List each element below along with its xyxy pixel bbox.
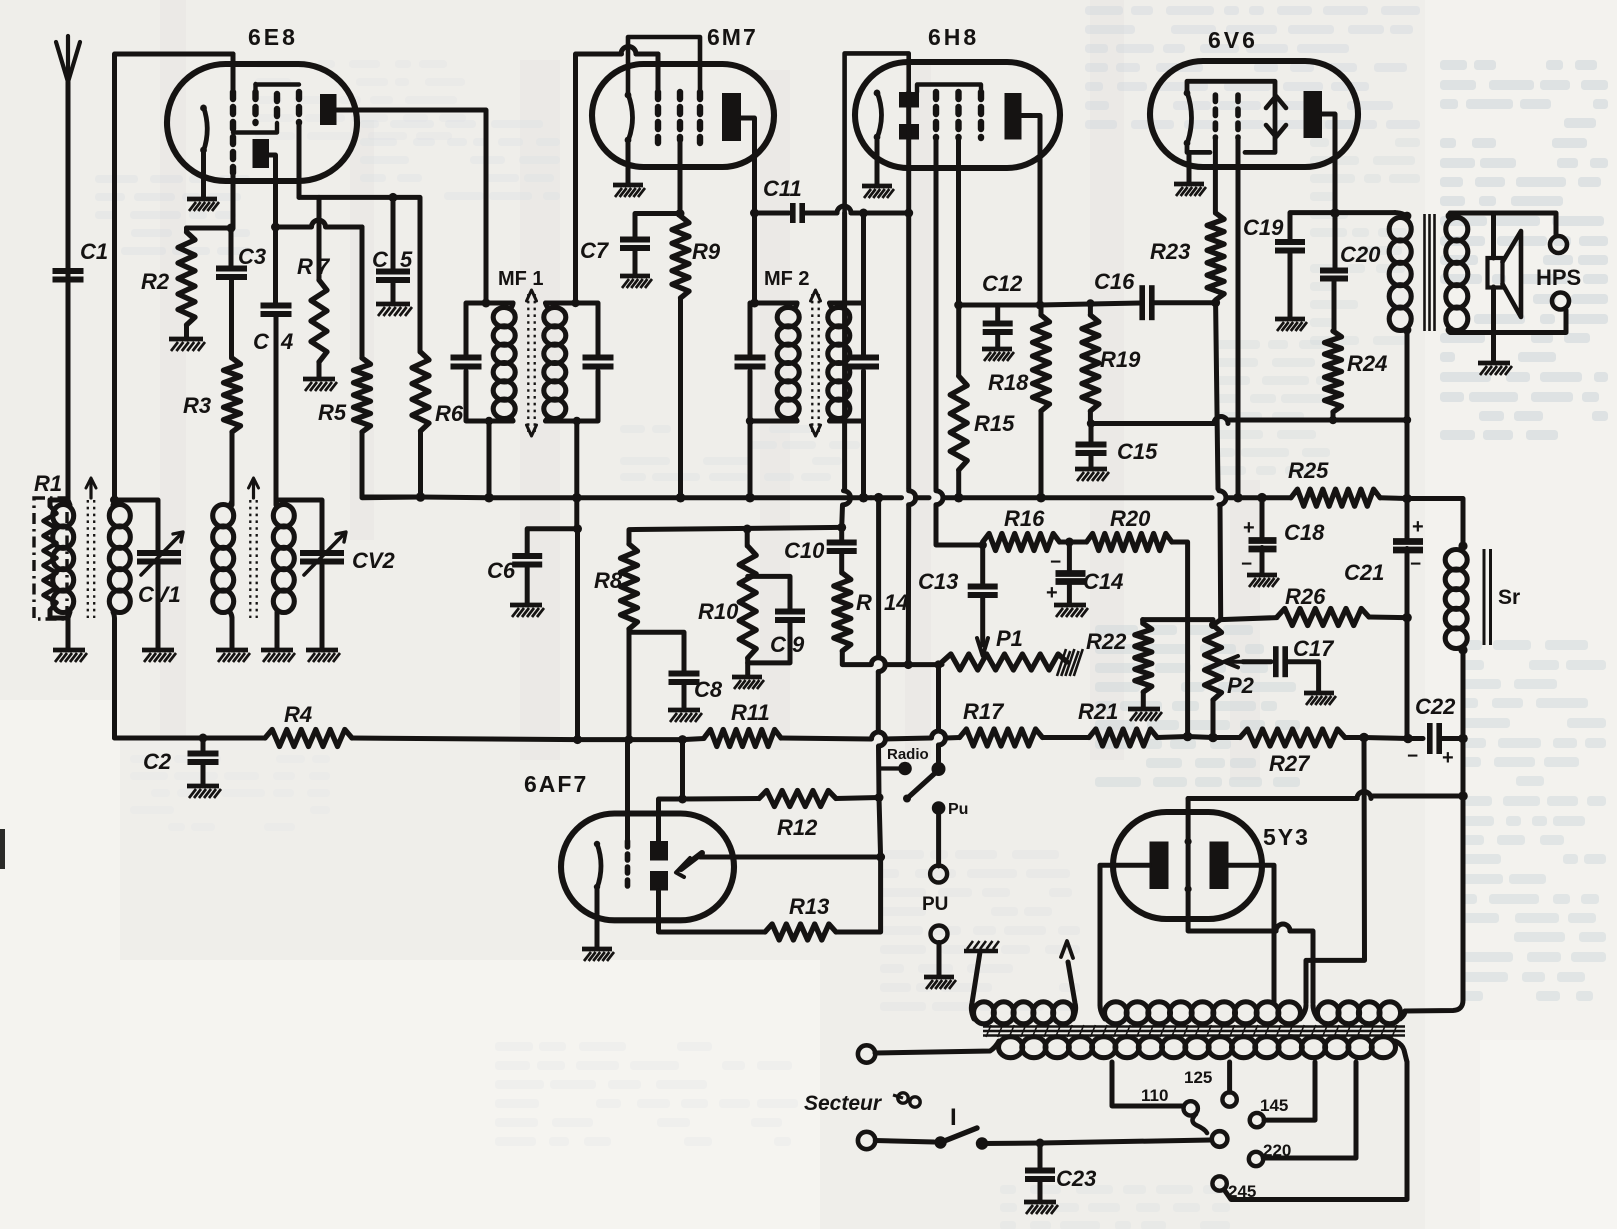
- ground C18: [1247, 573, 1277, 578]
- wire C16 to R23 node: [1152, 300, 1216, 305]
- wire C4-node to R5 with hop: [276, 225, 312, 230]
- svg-text:R10: R10: [698, 599, 739, 624]
- HPS terminal top: [1550, 236, 1567, 253]
- ground R2: [169, 337, 203, 342]
- wire R15 to bus: [956, 470, 961, 497]
- capacitor C2: [201, 738, 206, 753]
- wire C6 branch: [527, 529, 577, 556]
- resistor R19: [1082, 315, 1099, 411]
- wire 5Y3 plate 1 lead: [1100, 865, 1150, 1005]
- svg-text:R9: R9: [692, 239, 721, 264]
- 6H8 diode plate 1: [899, 92, 919, 108]
- 6E8 grid column 3: [274, 94, 280, 123]
- wire C22 to Sr line: [1440, 736, 1463, 741]
- svg-text:MF 1: MF 1: [498, 268, 544, 290]
- wire 6H8 cathode ground: [875, 138, 880, 186]
- mains winding W4: [999, 1037, 1023, 1058]
- node R23 bottom: [1211, 298, 1220, 307]
- node diode C11: [904, 209, 913, 218]
- 6H8 column 3: [978, 92, 984, 138]
- wire C13 to P1 wiper arrow: [980, 595, 985, 645]
- wire 5Y3 filament bottom: [1188, 919, 1276, 931]
- 6E8 screen bridge: [256, 82, 300, 86]
- ground 6E8 cathode: [187, 197, 217, 202]
- capacitor C3: [229, 228, 234, 269]
- wire diode line below bus: [906, 213, 911, 489]
- node MF2 top: [750, 299, 759, 308]
- wire R23 node down to P2 node: [1216, 303, 1218, 489]
- tap pivot circle: [1212, 1131, 1228, 1147]
- capacitor C22: [1427, 723, 1433, 754]
- 6V6 beam box: [1187, 81, 1275, 152]
- svg-text:4: 4: [280, 329, 293, 354]
- ground osc primary: [216, 648, 248, 653]
- wire 6AF7 grid up: [625, 740, 630, 841]
- wire C10 to R14: [839, 551, 844, 573]
- IF transformer MF1 frame left: [466, 303, 513, 421]
- B+ bus: [362, 495, 421, 501]
- mains link symbol: [898, 1093, 908, 1103]
- svg-text:R5: R5: [318, 400, 347, 425]
- wire 6H8 col2 down: [956, 138, 961, 165]
- wire 6M7 anode down: [741, 118, 755, 303]
- 6E8 grid column 4: [296, 92, 302, 123]
- wire grid-cap top: [115, 54, 234, 500]
- ground R10: [732, 675, 762, 680]
- wire anode node line: [959, 303, 998, 308]
- tap 110 circle: [1184, 1101, 1198, 1115]
- svg-text:6H8: 6H8: [928, 24, 979, 50]
- svg-text:C20: C20: [1340, 242, 1381, 267]
- capacitor C6: [512, 553, 542, 559]
- wire 6E8 cathode to ground: [201, 151, 206, 198]
- resistor R23: [1207, 213, 1224, 300]
- resistor R2: [178, 232, 195, 325]
- wire vertical R12-R13: [879, 798, 881, 858]
- wire MF1-right line below bus: [574, 498, 579, 529]
- svg-text:C16: C16: [1094, 269, 1135, 294]
- svg-text:R22: R22: [1086, 629, 1127, 654]
- svg-text:R15: R15: [974, 411, 1015, 436]
- capacitor C17: [1273, 646, 1279, 677]
- B+ bus right end: [1380, 495, 1407, 501]
- wire C4 to osc coil: [274, 314, 279, 505]
- 6M7 grid column: [655, 92, 661, 143]
- switch I contact 2: [976, 1137, 988, 1149]
- node R26 right: [1402, 613, 1412, 623]
- variable capacitor CV1: [137, 550, 181, 556]
- svg-text:C2: C2: [143, 749, 172, 774]
- 6AF7 grid column: [625, 841, 631, 886]
- capacitor C8: [669, 671, 700, 677]
- antenna: [56, 36, 80, 82]
- osc coil core: [249, 500, 251, 618]
- wire bias bus to HV return: [1306, 738, 1365, 1004]
- tap 220 circle: [1249, 1152, 1263, 1166]
- 6H8 column 2: [955, 92, 961, 138]
- svg-text:PU: PU: [922, 894, 948, 915]
- svg-text:+: +: [1046, 582, 1058, 604]
- oscillator coil primary: [213, 505, 234, 527]
- wire tap 145: [1264, 1062, 1315, 1120]
- svg-text:R18: R18: [988, 370, 1029, 395]
- svg-text:C14: C14: [1083, 569, 1123, 594]
- 6H8 triode grid column: [933, 92, 939, 138]
- tap selector lever: [1193, 1114, 1208, 1133]
- ground W1: [964, 949, 998, 954]
- node P1 input: [934, 660, 942, 668]
- resistor R14: [834, 573, 851, 651]
- wire W1 right arrow: [1068, 962, 1076, 1019]
- HV winding W2: [1105, 1002, 1128, 1024]
- resistor R11: [704, 730, 781, 747]
- svg-text:MF 2: MF 2: [764, 268, 810, 290]
- wire C19 branch: [1290, 213, 1335, 242]
- node C10 top: [837, 523, 846, 532]
- wire R5 to bus: [362, 432, 420, 497]
- ground 6H8 cathode: [862, 184, 892, 189]
- capacitor C14: [1067, 542, 1072, 574]
- resistor R5: [354, 358, 371, 432]
- wire C17 to ground: [1286, 662, 1319, 692]
- tap 145 circle: [1250, 1113, 1264, 1127]
- ground C15: [1075, 467, 1107, 472]
- output transformer primary: [1395, 213, 1407, 220]
- svg-text:C22: C22: [1415, 694, 1456, 719]
- capacitor C18: [1260, 498, 1265, 541]
- resistor R22: [1140, 620, 1145, 624]
- wire OPT secondary bottom rail: [1450, 310, 1566, 333]
- svg-text:C23: C23: [1056, 1166, 1096, 1191]
- heater winding W1: [974, 1002, 995, 1024]
- capacitor C5: [391, 197, 396, 272]
- svg-text:−: −: [1241, 554, 1252, 575]
- antenna coil core: [87, 500, 89, 618]
- wire 5Y3 filament top to B+: [1188, 796, 1357, 801]
- wire R17 to R21: [1043, 735, 1090, 740]
- wire R3 to osc coil: [230, 432, 235, 505]
- capacitor C10: [839, 527, 844, 543]
- ground 6V6 cathode: [1174, 182, 1204, 187]
- wire coil to ground: [66, 618, 71, 650]
- wire MF1 right bottom to bus: [574, 421, 579, 497]
- resistor R8: [621, 544, 638, 629]
- svg-text:Secteur: Secteur: [804, 1092, 883, 1115]
- wire 6H8 anode out: [1022, 116, 1041, 304]
- wire W1 left to ground: [971, 952, 980, 1019]
- wire 6AF7 cathode ground: [595, 888, 600, 948]
- svg-text:C19: C19: [1243, 215, 1284, 240]
- wire R20 right drop: [1172, 542, 1188, 737]
- capacitor C16: [1139, 285, 1145, 320]
- wire 6V6 grid down: [1213, 138, 1218, 213]
- wire osc to CV2: [276, 500, 322, 554]
- resistor R7: [317, 197, 322, 280]
- wire PU jack to ground: [937, 943, 942, 977]
- resistor R4: [265, 730, 352, 747]
- switch I contact 1: [934, 1136, 946, 1148]
- 6V6 screen column: [1235, 95, 1241, 138]
- svg-text:C: C: [253, 329, 270, 354]
- node C2: [199, 734, 208, 743]
- capacitor C12: [983, 321, 1013, 327]
- wire MF1 left bottom to bus: [487, 421, 492, 497]
- MF1 secondary: [544, 308, 566, 327]
- wire Sr to C22 node: [1461, 650, 1466, 739]
- tap 125 circle: [1222, 1092, 1236, 1106]
- capacitor C21: [1405, 499, 1410, 543]
- wire 6H8 grid down: [934, 138, 939, 165]
- potentiometer P1: [942, 654, 1067, 670]
- svg-text:R19: R19: [1100, 347, 1141, 372]
- ground CV2: [306, 648, 338, 653]
- capacitor C9: [775, 609, 805, 615]
- wire MF2 right top to diode line: [861, 213, 866, 303]
- ground C12: [982, 347, 1012, 352]
- 6E8 triode anode: [253, 139, 270, 168]
- speaker voice coil: [1488, 258, 1503, 288]
- wire C3 to R3: [229, 277, 234, 358]
- svg-text:−: −: [1407, 746, 1418, 767]
- svg-text:C10: C10: [784, 538, 825, 563]
- resistor R27: [1240, 729, 1345, 746]
- resistor R15: [956, 305, 961, 376]
- svg-text:R1: R1: [34, 471, 62, 496]
- wire CV2 to ground: [320, 565, 325, 650]
- 6AF7 cathode: [597, 844, 601, 889]
- svg-text:R3: R3: [183, 393, 211, 418]
- capacitor C23: [1038, 1143, 1043, 1171]
- P2 wiper arrow: [1228, 660, 1243, 664]
- svg-text:C 9: C 9: [770, 632, 805, 657]
- resistor R10: [745, 529, 750, 546]
- MF2 primary: [777, 308, 799, 327]
- svg-text:Sr: Sr: [1498, 586, 1520, 609]
- ground C14: [1054, 603, 1086, 608]
- node R15 top: [954, 301, 963, 310]
- svg-text:+: +: [1442, 747, 1454, 769]
- resistor R21: [1089, 729, 1157, 746]
- tube 5Y3 envelope: [1113, 812, 1262, 919]
- wire R12 right: [836, 798, 879, 799]
- svg-text:−: −: [1050, 552, 1061, 573]
- choke Sr: [1458, 541, 1467, 550]
- switch lever: [907, 770, 939, 799]
- wire to CV1: [115, 500, 159, 554]
- P1 body hatch: [1057, 649, 1066, 676]
- ground 6M7 cathode: [613, 183, 643, 188]
- wire screen line: [299, 195, 393, 200]
- filament winding W3: [1317, 1002, 1339, 1024]
- switch contact Pu: [932, 801, 946, 815]
- 6V6 beam arrows: [1266, 96, 1286, 108]
- svg-text:+: +: [1243, 517, 1255, 539]
- wire C13 top corner: [980, 545, 985, 587]
- 6H8 anode: [1005, 93, 1022, 140]
- resistor R25: [1291, 489, 1380, 506]
- resistor R1 dash-dot box: [34, 498, 67, 619]
- wire R8 bottom: [627, 629, 632, 740]
- svg-text:5: 5: [400, 247, 413, 272]
- ground R22: [1128, 707, 1160, 712]
- 5Y3 plate 2: [1210, 842, 1229, 890]
- wire C20 to R24: [1332, 278, 1337, 331]
- 5Y3 filament line: [1186, 799, 1191, 920]
- ground 6AF7 cathode: [582, 947, 612, 952]
- 6H8 top bridge: [845, 53, 909, 213]
- svg-text:R4: R4: [284, 702, 312, 727]
- 6V6 grid column: [1213, 95, 1219, 138]
- wire 6V6 anode out: [1322, 114, 1335, 213]
- svg-text:C: C: [372, 247, 389, 272]
- ground C5: [376, 302, 410, 307]
- 6E8 cathode: [204, 107, 208, 151]
- ground C2: [187, 784, 219, 789]
- 6M7 anode: [722, 93, 741, 141]
- resistor R6: [412, 352, 429, 431]
- svg-text:R16: R16: [1004, 506, 1045, 531]
- wire C21 node to C22: [1405, 618, 1410, 739]
- Sr core: [1483, 549, 1486, 645]
- svg-text:CV2: CV2: [352, 548, 396, 573]
- wire R10 to ground: [745, 658, 750, 676]
- ground speaker: [1478, 361, 1510, 366]
- 6E8 g1-g3 jog: [233, 123, 277, 133]
- wire R8 top line: [629, 527, 842, 544]
- svg-text:Radio: Radio: [887, 746, 929, 763]
- wire 6V6 screen to bus: [1236, 138, 1241, 498]
- wire radio line from bus: [876, 498, 881, 657]
- wire 6V6 cathode ground: [1187, 152, 1192, 184]
- capacitor C7: [635, 214, 680, 241]
- wire 6H8 col2 to R15: [956, 165, 961, 305]
- resistor R16: [983, 534, 1060, 551]
- wire P2 node to R26: [1221, 618, 1277, 620]
- capacitor C1: [53, 268, 84, 274]
- svg-text:R27: R27: [1269, 751, 1311, 776]
- resistor R20: [1087, 534, 1172, 551]
- switch I lever: [941, 1128, 978, 1143]
- wire 5Y3 plate 2 lead: [1229, 865, 1275, 1003]
- wire P1 to switch pivot: [936, 665, 941, 731]
- 6AF7 target square 1: [650, 841, 668, 861]
- tube 6E8 envelope: [167, 64, 357, 181]
- wire R13 left: [659, 891, 766, 933]
- svg-text:C17: C17: [1293, 636, 1335, 661]
- resistor R17: [960, 729, 1043, 746]
- svg-text:R12: R12: [777, 815, 818, 840]
- svg-text:R11: R11: [731, 700, 770, 725]
- resistor R9: [672, 216, 689, 298]
- ground C7: [620, 274, 650, 279]
- ground R7: [303, 377, 335, 382]
- MF1 primary: [493, 308, 515, 327]
- svg-text:R6: R6: [435, 401, 464, 426]
- wire R2 to C3: [187, 226, 232, 231]
- node 6AF7 target bus: [678, 795, 687, 804]
- node C14: [1065, 538, 1074, 547]
- ground antenna coil: [53, 648, 85, 653]
- wire target node to bias bus: [680, 740, 685, 799]
- wire R18 to bus: [1039, 411, 1044, 498]
- resistor R12: [759, 791, 836, 807]
- svg-text:R25: R25: [1288, 458, 1329, 483]
- 6H8 cathode: [877, 92, 882, 138]
- svg-text:C1: C1: [80, 239, 108, 264]
- svg-text:C12: C12: [982, 271, 1023, 296]
- switch contact Radio: [879, 766, 898, 770]
- svg-text:P1: P1: [996, 626, 1023, 651]
- ground osc secondary: [261, 648, 293, 653]
- svg-text:C11: C11: [763, 176, 802, 201]
- resistor R26: [1277, 609, 1369, 626]
- resistor R13: [765, 924, 836, 940]
- 6H8 diode plate 2: [899, 124, 919, 140]
- wire CV1 to ground: [156, 565, 161, 650]
- wire 6E8 anode to MF1: [336, 110, 486, 303]
- capacitor C15: [1076, 442, 1107, 448]
- tap 245 circle: [1212, 1176, 1226, 1190]
- MF2 secondary: [828, 308, 850, 327]
- wire MF2 right bottom to bus: [861, 421, 866, 497]
- wire R24 bottom: [1331, 412, 1336, 420]
- wire MF2 left bottom to bus: [748, 421, 753, 497]
- MF1 left tuning capacitor: [451, 355, 482, 361]
- ground C19: [1275, 317, 1305, 322]
- svg-text:−: −: [1410, 554, 1421, 575]
- svg-text:6AF7: 6AF7: [524, 771, 588, 797]
- node C5: [389, 193, 398, 202]
- wire coil sec bottom to bus: [113, 612, 115, 738]
- 6V6 anode: [1304, 91, 1323, 138]
- wire R14 to P1: [842, 651, 871, 665]
- wire target to R12 line: [659, 799, 683, 841]
- switch pivot: [932, 762, 946, 776]
- 6E8 grid g1 column: [230, 92, 236, 173]
- wire R21 to R27: [1157, 737, 1187, 738]
- wire g1 into tube: [231, 54, 236, 90]
- svg-text:125: 125: [1184, 1068, 1212, 1087]
- PU jack terminal 1: [930, 866, 947, 883]
- speaker frame line: [1491, 213, 1496, 258]
- OPT core: [1423, 214, 1426, 331]
- svg-text:C18: C18: [1284, 520, 1325, 545]
- MF1 core: [527, 294, 529, 432]
- resistor R1: [44, 506, 57, 610]
- svg-text:R17: R17: [963, 699, 1005, 724]
- IF transformer MF1 frame right: [546, 303, 599, 421]
- tube 6V6 envelope: [1150, 61, 1358, 167]
- wire switch to tap pivot: [982, 1141, 1040, 1147]
- capacitor C13: [968, 584, 998, 590]
- svg-text:C3: C3: [238, 244, 266, 269]
- wire MF1 right top to 6M7: [576, 54, 621, 303]
- MF2 left tuning capacitor: [735, 355, 766, 361]
- ground C6: [510, 603, 542, 608]
- svg-text:HPS: HPS: [1536, 265, 1581, 290]
- svg-text:+: +: [1412, 516, 1424, 538]
- tube 6M7 envelope: [592, 64, 774, 167]
- tube 6H8 envelope: [855, 62, 1060, 168]
- MF1 right tuning capacitor: [583, 355, 614, 361]
- wire tap 220: [1263, 1062, 1356, 1158]
- HPS terminal bottom: [1552, 293, 1569, 310]
- antenna coil secondary: [109, 505, 130, 527]
- svg-text:6V6: 6V6: [1208, 27, 1258, 53]
- speaker cone: [1503, 231, 1522, 317]
- wire 6M7 cathode ground: [626, 141, 631, 184]
- bias bus to R17: [781, 738, 871, 739]
